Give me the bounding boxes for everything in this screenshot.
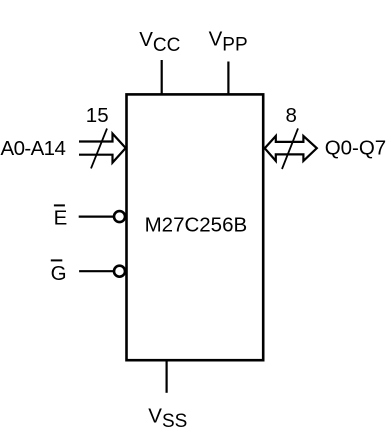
- E input wire: [79, 216, 114, 218]
- svg-text:15: 15: [86, 104, 109, 127]
- svg-text:8: 8: [286, 104, 297, 127]
- svg-text:Q0-Q7: Q0-Q7: [325, 137, 387, 160]
- svg-text:E: E: [54, 207, 68, 230]
- svg-text:VCC: VCC: [139, 28, 180, 56]
- E inversion bubble: [114, 211, 125, 222]
- VSS pin wire: [166, 360, 168, 393]
- G overline: [51, 259, 63, 261]
- svg-text:VPP: VPP: [209, 28, 248, 56]
- svg-text:A0-A14: A0-A14: [1, 137, 66, 160]
- bus width slash (15 lines): [91, 129, 107, 169]
- bus width slash (8 lines): [282, 128, 298, 169]
- address bus arrow A0-A14 (hollow arrow into left side): [79, 134, 126, 163]
- G input wire: [79, 270, 113, 272]
- VPP pin wire: [227, 62, 229, 95]
- VCC pin wire: [161, 60, 163, 94]
- svg-text:M27C256B: M27C256B: [145, 213, 248, 236]
- data bus arrow Q0-Q7 (hollow double-headed arrow on right side): [265, 136, 317, 161]
- E overline: [54, 204, 65, 206]
- svg-text:G: G: [51, 262, 67, 285]
- IC U1 M27C256B body: [127, 94, 264, 360]
- G inversion bubble: [114, 266, 125, 277]
- svg-text:VSS: VSS: [148, 404, 187, 432]
